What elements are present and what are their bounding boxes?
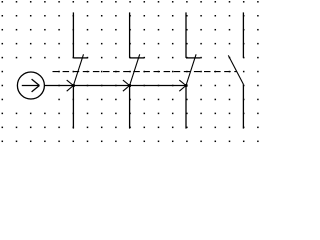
switch S3 bottom terminal wire [185, 86, 187, 129]
switch S2 bottom terminal wire [129, 86, 131, 129]
switch S1 blade [73, 54, 83, 85]
node C junction dot [185, 84, 188, 87]
arrowhead into node A [67, 80, 74, 91]
switch S2 blade [130, 54, 140, 85]
current source I1 body halo [9, 62, 52, 108]
switch S3 top terminal wire [185, 12, 187, 58]
current source I1 arrow [22, 79, 40, 92]
wire from node A to node B [73, 85, 129, 87]
arrowhead into node C [179, 80, 186, 91]
mechanical coupling dashed line [53, 71, 237, 73]
switch S1 contact bar [73, 57, 87, 59]
switch S2 top terminal wire [129, 12, 131, 58]
switch S4 bottom terminal wire [242, 84, 244, 128]
switch S4 top terminal wire [242, 12, 244, 57]
switch S1 bottom terminal wire [72, 86, 74, 129]
node A junction dot [72, 84, 75, 87]
switch S3 contact bar [186, 57, 200, 59]
switch S3 blade [186, 54, 196, 85]
current source I1 circle [17, 72, 44, 99]
switch S4 blade [228, 55, 243, 84]
node B junction dot [128, 84, 131, 87]
switch S2 contact bar [130, 57, 144, 59]
wire from node B to node C [130, 85, 186, 87]
switch S1 top terminal wire [72, 12, 74, 58]
arrowhead into node B [123, 80, 130, 91]
wire from source to node A [44, 85, 73, 87]
